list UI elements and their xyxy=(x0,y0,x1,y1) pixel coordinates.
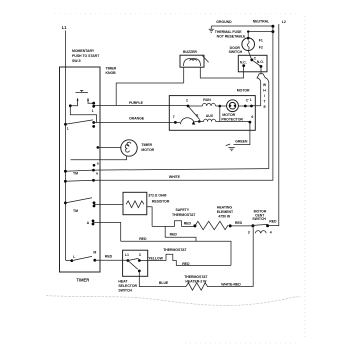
timer switch TM1 blade xyxy=(65,170,93,171)
svg-text:I: I xyxy=(264,94,265,98)
svg-text:3: 3 xyxy=(248,230,250,234)
svg-text:BUZZER: BUZZER xyxy=(183,50,197,54)
svg-text:MOTOR: MOTOR xyxy=(237,89,250,93)
svg-text:6: 6 xyxy=(251,115,253,119)
door switch box xyxy=(238,55,267,72)
svg-text:SW-5: SW-5 xyxy=(72,59,81,63)
wire blue and thermostat heater xyxy=(139,271,186,287)
motor start switch blade xyxy=(188,106,200,120)
top ground line xyxy=(211,25,273,27)
svg-text:SWITCH: SWITCH xyxy=(229,50,243,54)
svg-text:NEUTRAL: NEUTRAL xyxy=(253,20,270,24)
node run-aux junction xyxy=(219,105,222,108)
node contact N / white neutral line H1 xyxy=(92,169,95,172)
svg-text:TIMER: TIMER xyxy=(77,277,90,282)
wire NO down xyxy=(260,66,262,73)
svg-text:2: 2 xyxy=(186,98,188,102)
svg-text:RUN: RUN xyxy=(203,98,211,102)
motor terminal 2 xyxy=(187,105,190,108)
svg-text:WHITE: WHITE xyxy=(169,175,181,179)
motor terminal 7 xyxy=(174,121,177,124)
svg-text:PROTECTOR: PROTECTOR xyxy=(221,118,243,122)
wire resistor to heater line xyxy=(147,207,152,227)
timer bottom switch to heat selector xyxy=(70,259,73,262)
svg-text:GROUND: GROUND xyxy=(216,20,232,24)
motor main line xyxy=(188,105,252,107)
svg-text:RESISTOR: RESISTOR xyxy=(152,199,170,203)
svg-text:HEATING: HEATING xyxy=(217,206,232,210)
wire orange contacts and blade xyxy=(92,121,95,124)
svg-text:ORANGE: ORANGE xyxy=(129,116,145,120)
resistor 372 ohm box xyxy=(123,192,147,214)
connector tent below door switch xyxy=(257,74,266,79)
wire purple branch up to buzzer line xyxy=(116,83,184,106)
svg-text:372 Ω OHM: 372 Ω OHM xyxy=(148,193,166,197)
svg-text:YELLOW: YELLOW xyxy=(148,256,163,260)
svg-text:F2: F2 xyxy=(259,46,263,50)
svg-text:THERMOSTAT: THERMOSTAT xyxy=(163,248,187,252)
buzzer xyxy=(180,55,204,67)
wire timer motor bottom lead xyxy=(71,156,127,160)
wire element to cent switch xyxy=(230,225,253,227)
svg-text:PUSH TO START: PUSH TO START xyxy=(72,54,100,58)
heat selector switch xyxy=(123,250,148,276)
node L1 junction dot in timer xyxy=(64,123,67,126)
push switch right contact dots xyxy=(92,102,95,105)
svg-text:ELEMENT: ELEMENT xyxy=(217,210,234,214)
wire green to ground xyxy=(233,122,250,145)
svg-text:SWITCH: SWITCH xyxy=(252,217,266,221)
wire white loop down right side xyxy=(265,77,269,168)
svg-text:DOOR: DOOR xyxy=(230,46,241,50)
wire buzzer left lead xyxy=(183,67,185,83)
wire to resistor xyxy=(94,203,123,205)
ground symbol green xyxy=(226,144,235,151)
svg-text:TIMER: TIMER xyxy=(106,66,117,70)
motor terminal 6 xyxy=(249,121,252,124)
thermal fuse F1 F2 xyxy=(247,32,249,38)
svg-text:BLUE: BLUE xyxy=(159,281,169,285)
wire from left contact down and right xyxy=(70,106,96,123)
svg-text:7: 7 xyxy=(173,115,175,119)
timer contact A xyxy=(92,220,95,223)
svg-text:TIMER: TIMER xyxy=(141,143,152,147)
svg-text:1: 1 xyxy=(250,98,252,102)
svg-text:RED: RED xyxy=(170,232,178,236)
svg-text:F1: F1 xyxy=(259,39,263,43)
node contact W / neutral line H2 xyxy=(64,180,67,183)
svg-text:MOTOR: MOTOR xyxy=(141,148,154,152)
svg-text:PURPLE: PURPLE xyxy=(129,101,144,105)
svg-text:RED: RED xyxy=(139,237,147,241)
svg-text:N.C.: N.C. xyxy=(240,61,247,65)
wire L1 supply vertical xyxy=(66,31,72,261)
node contact B xyxy=(93,164,96,167)
svg-text:NOT RESETABLE: NOT RESETABLE xyxy=(217,34,246,38)
svg-text:4750 W: 4750 W xyxy=(218,215,231,219)
svg-text:SELECTOR: SELECTOR xyxy=(118,284,137,288)
svg-text:RED: RED xyxy=(235,221,243,225)
centrifugal actuator arc xyxy=(181,118,195,124)
svg-text:4: 4 xyxy=(270,230,272,234)
svg-text:RED: RED xyxy=(105,255,113,259)
svg-text:TM: TM xyxy=(73,172,78,176)
wire timer motor left lead xyxy=(98,146,121,148)
svg-text:SAFETY: SAFETY xyxy=(176,208,190,212)
timer box xyxy=(60,67,101,272)
svg-text:1: 1 xyxy=(92,109,94,113)
wire purple run to motor xyxy=(94,105,189,107)
svg-text:N: N xyxy=(96,171,98,175)
push switch left contact dot xyxy=(69,104,72,107)
svg-text:AUX: AUX xyxy=(206,114,214,118)
svg-text:RED: RED xyxy=(182,262,190,266)
svg-text:KNOB: KNOB xyxy=(106,71,117,75)
node neutral junction dots xyxy=(271,25,274,28)
svg-text:WHITE-RED: WHITE-RED xyxy=(221,283,241,287)
motor box xyxy=(169,96,255,131)
timer switch TM2 xyxy=(64,202,67,205)
svg-text:GREEN: GREEN xyxy=(235,139,248,143)
svg-text:THERMOSTAT: THERMOSTAT xyxy=(184,275,208,279)
wire L2 down to cent switch xyxy=(268,24,279,226)
svg-text:C': C' xyxy=(246,99,249,103)
wire buzzer right lead to door switch NC xyxy=(200,66,243,78)
timer motor xyxy=(121,140,137,156)
svg-text:MOTOR: MOTOR xyxy=(222,113,235,117)
wire orange to motor xyxy=(94,122,176,124)
svg-text:L1: L1 xyxy=(125,253,129,257)
svg-text:TM: TM xyxy=(73,209,78,213)
top neutral line xyxy=(248,31,273,33)
svg-text:M: M xyxy=(93,251,96,255)
svg-text:HEAT: HEAT xyxy=(118,280,128,284)
motor terminal C xyxy=(244,105,247,108)
svg-text:THERMOSTAT: THERMOSTAT xyxy=(172,213,196,217)
svg-text:B: B xyxy=(97,162,99,166)
motor terminal 1 xyxy=(250,105,253,108)
faint page dots right xyxy=(304,16,306,338)
motor protector xyxy=(227,100,239,112)
wire white to motor terminal 1 xyxy=(252,78,261,106)
push-to-start switch plunger xyxy=(76,90,89,92)
svg-text:MOMENTARY: MOMENTARY xyxy=(72,49,95,53)
red feed staircase from timer xyxy=(165,226,196,241)
ground symbol at thermal fuse xyxy=(209,26,214,32)
svg-text:THERMAL FUSE: THERMAL FUSE xyxy=(215,30,242,34)
svg-text:L2: L2 xyxy=(282,20,286,24)
wire fuse to door switch common xyxy=(248,51,251,60)
scan artifact wavy line xyxy=(46,296,301,306)
svg-text:RED: RED xyxy=(269,220,277,224)
wire cent sw 3 down to thermostat heater loop xyxy=(250,226,253,287)
svg-text:RED: RED xyxy=(184,221,192,225)
svg-text:L1: L1 xyxy=(62,25,68,30)
svg-text:SWITCH: SWITCH xyxy=(118,288,132,292)
svg-text:N.O.: N.O. xyxy=(257,60,264,64)
push-to-start contacts xyxy=(71,99,93,105)
